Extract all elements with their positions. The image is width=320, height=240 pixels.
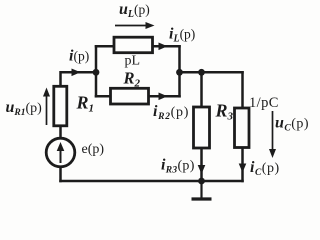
wire: out of R2 box to merge bbox=[149, 95, 180, 98]
wire: R3 branch bottom bbox=[200, 148, 203, 181]
node: R3 top junction bbox=[198, 69, 205, 76]
wire: into pL box bbox=[96, 45, 114, 48]
inductor pL (box) bbox=[114, 37, 153, 53]
source e(p) internal arrow bbox=[57, 142, 65, 163]
wire: source bottom to rail bbox=[59, 167, 62, 182]
svg-text:e(p): e(p) bbox=[82, 142, 105, 157]
arrow: voltage uL(p) bbox=[115, 22, 155, 29]
wire: top horizontal to capacitor branch bbox=[180, 71, 243, 74]
node: right merge junction bbox=[176, 69, 183, 76]
node: left split junction bbox=[93, 69, 100, 76]
wire: split vertical at left junction bbox=[95, 46, 98, 96]
wire: R3 branch top drop bbox=[200, 72, 203, 107]
svg-text:iC(p): iC(p) bbox=[250, 159, 280, 178]
arrowhead: current iL(p) bbox=[159, 43, 168, 51]
wire: merge vertical at right of parallel group bbox=[178, 46, 181, 96]
wire: capacitor branch top drop bbox=[241, 72, 244, 108]
arrowhead: current iC(p) bbox=[239, 164, 247, 173]
svg-text:uC(p): uC(p) bbox=[275, 114, 309, 133]
capacitor 1/pC (box) bbox=[235, 108, 250, 148]
arrow: voltage uC(p) bbox=[269, 111, 276, 158]
wire: R1 bottom to source top bbox=[59, 126, 62, 139]
svg-text:i(p): i(p) bbox=[69, 48, 89, 65]
source e(p) circle bbox=[46, 138, 75, 167]
resistor R1 (box) bbox=[54, 86, 67, 126]
arrowhead: current iR3(p) bbox=[198, 165, 206, 174]
arrowhead: current iR2(p) bbox=[159, 93, 168, 101]
wire: capacitor branch bottom bbox=[241, 148, 244, 182]
wire: left vertical from R1 top up and across to split node bbox=[61, 72, 97, 87]
svg-text:pL: pL bbox=[125, 54, 141, 69]
node: ground junction bbox=[198, 178, 205, 185]
svg-text:1/pC: 1/pC bbox=[249, 95, 279, 111]
arrow: voltage uR1(p) bbox=[43, 88, 50, 126]
resistor R3 (box) bbox=[194, 107, 210, 148]
wire: out of pL box to merge bbox=[153, 45, 180, 48]
ground bbox=[192, 181, 212, 199]
wire: bottom return rail bbox=[61, 180, 243, 183]
resistor R2 (box) bbox=[111, 88, 149, 104]
wire: into R2 box bbox=[96, 95, 111, 98]
arrowhead: current i(p) on main wire bbox=[72, 69, 81, 77]
